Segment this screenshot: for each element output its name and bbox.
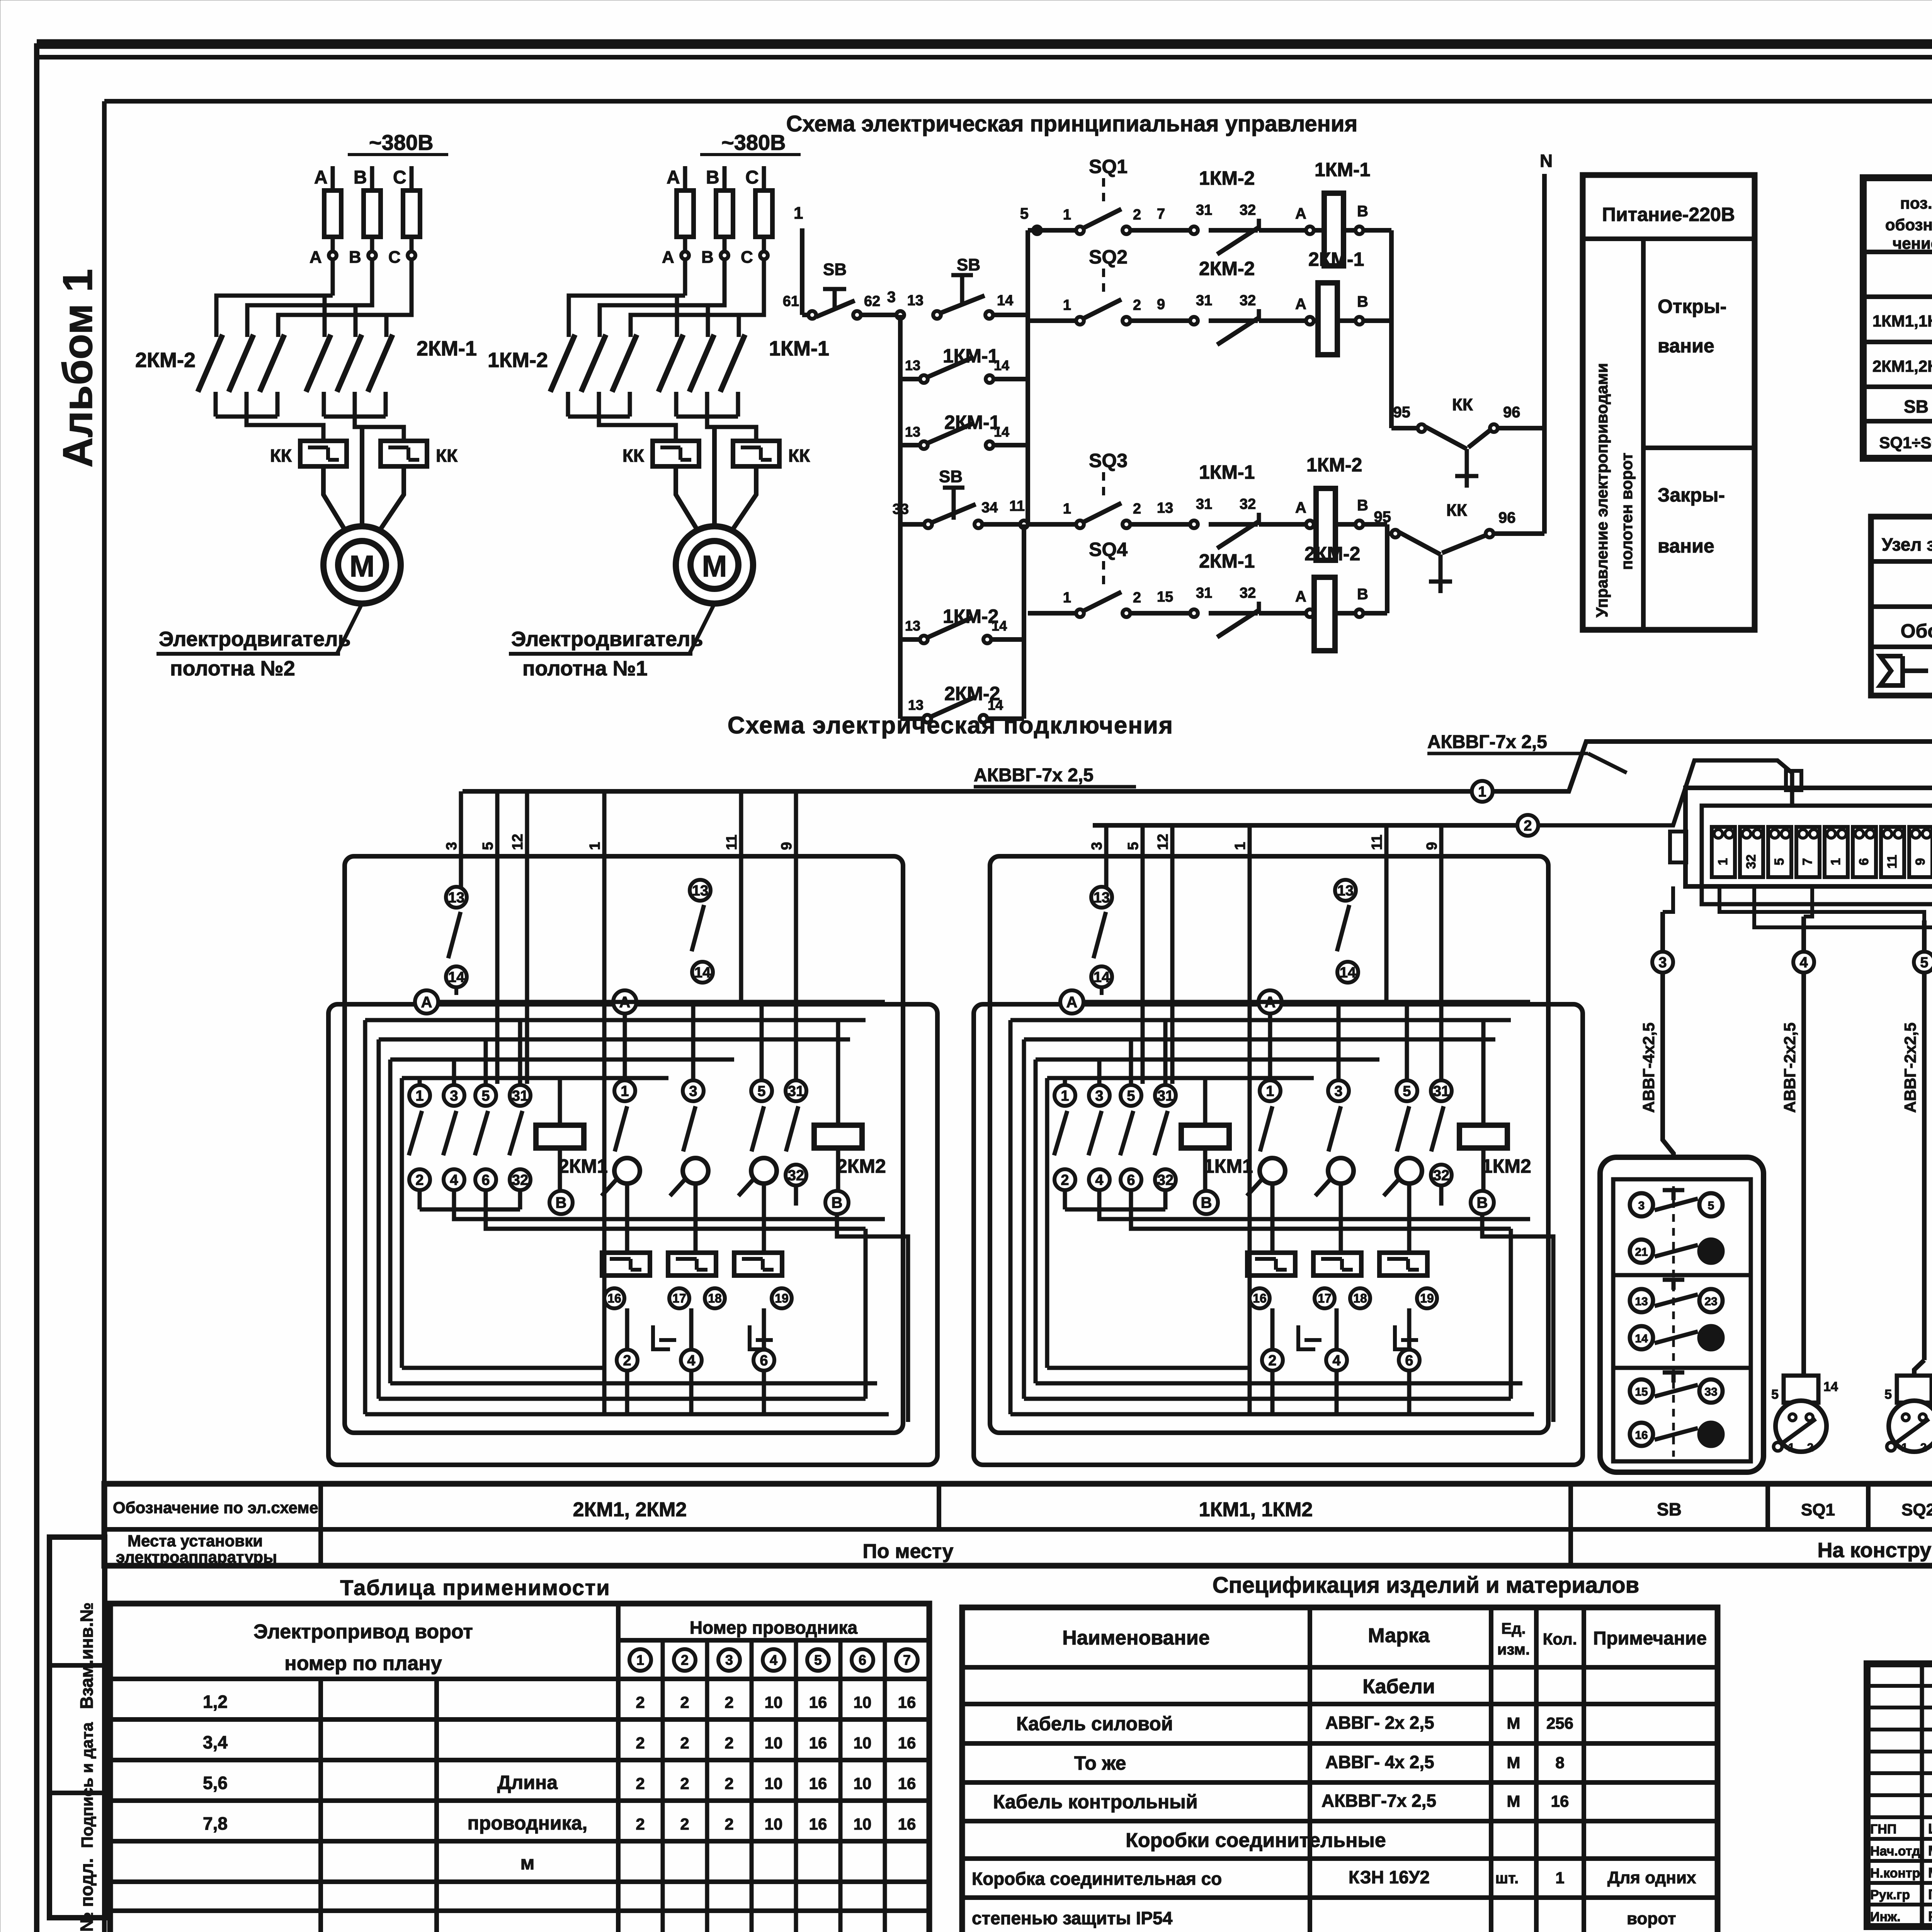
main title block frame bbox=[1867, 1664, 1932, 1927]
svg-text:32: 32 bbox=[1157, 1172, 1173, 1188]
coil output bus lower bbox=[1385, 524, 1389, 613]
svg-text:Таблица применимости: Таблица применимости bbox=[340, 1575, 610, 1600]
svg-text:13: 13 bbox=[908, 697, 923, 713]
svg-text:КК: КК bbox=[622, 446, 645, 466]
fuse С bbox=[755, 190, 772, 237]
svg-text:2: 2 bbox=[1133, 501, 1141, 517]
svg-text:11: 11 bbox=[724, 835, 740, 850]
svg-text:5: 5 bbox=[1772, 858, 1787, 866]
wire elbows to contactor poles bbox=[569, 296, 685, 320]
cable АВВГ-2х2,5 wire 4 bbox=[1801, 917, 1806, 1375]
svg-text:Альбом 1: Альбом 1 bbox=[54, 269, 101, 468]
terminal circles under KK bbox=[604, 1288, 624, 1308]
svg-text:3,4: 3,4 bbox=[203, 1732, 228, 1752]
svg-text:1КМ1: 1КМ1 bbox=[1204, 1155, 1253, 1177]
svg-text:А: А bbox=[667, 167, 680, 188]
jumper wires under strip bbox=[1719, 886, 1924, 920]
svg-text:С: С bbox=[741, 248, 753, 267]
svg-text:1КМ-1: 1КМ-1 bbox=[1315, 159, 1370, 180]
rung 1КМ-1 y=596 bbox=[1028, 228, 1080, 233]
svg-text:13: 13 bbox=[1157, 500, 1173, 516]
svg-text:13: 13 bbox=[1635, 1295, 1648, 1308]
svg-text:Марка: Марка bbox=[1368, 1624, 1430, 1647]
inner frame bbox=[102, 101, 107, 1932]
terminal 5 bbox=[1825, 827, 1848, 877]
terminal 4 bbox=[1796, 827, 1820, 877]
svg-text:поз.: поз. bbox=[1900, 194, 1932, 212]
svg-text:Схема электрическая подключен: Схема электрическая подключения bbox=[728, 712, 1173, 739]
cable АВВГ-4х2,5 wire 3 bbox=[1660, 912, 1665, 1128]
svg-text:10: 10 bbox=[765, 1774, 783, 1793]
svg-text:3: 3 bbox=[1658, 954, 1667, 971]
svg-text:1: 1 bbox=[1063, 501, 1071, 517]
thermal hooks bbox=[1298, 1325, 1315, 1349]
designation band bbox=[104, 1484, 1932, 1566]
svg-text:С: С bbox=[393, 167, 406, 188]
motor label bbox=[337, 604, 362, 654]
svg-text:3: 3 bbox=[1089, 842, 1105, 850]
svg-text:SQ1: SQ1 bbox=[1801, 1500, 1835, 1519]
svg-text:Электродвигатель: Электродвигатель bbox=[159, 628, 351, 651]
svg-text:2КМ1, 2КМ2: 2КМ1, 2КМ2 bbox=[573, 1498, 687, 1521]
svg-text:А: А bbox=[421, 994, 432, 1011]
svg-text:13: 13 bbox=[448, 889, 464, 906]
svg-text:1КМ-1: 1КМ-1 bbox=[1199, 461, 1255, 483]
svg-text:М: М bbox=[1507, 1792, 1520, 1810]
svg-text:Коробки соединительные: Коробки соединительные bbox=[1126, 1829, 1386, 1852]
svg-text:А: А bbox=[310, 248, 322, 267]
svg-text:степенью защиты IP54: степенью защиты IP54 bbox=[972, 1908, 1173, 1928]
svg-text:3: 3 bbox=[725, 1652, 733, 1668]
svg-text:11: 11 bbox=[1369, 835, 1385, 850]
svg-text:SQ4: SQ4 bbox=[1089, 539, 1128, 560]
svg-text:А: А bbox=[1295, 588, 1306, 605]
svg-text:Рывина: Рывина bbox=[1928, 1908, 1932, 1924]
svg-text:Управление электроприводами: Управление электроприводами bbox=[1593, 363, 1611, 617]
svg-text:10: 10 bbox=[854, 1693, 872, 1711]
svg-text:В: В bbox=[1357, 293, 1368, 310]
svg-text:4: 4 bbox=[450, 1172, 458, 1188]
coil 1КМ1 bbox=[1181, 1125, 1229, 1148]
svg-text:9: 9 bbox=[1424, 842, 1440, 850]
svg-text:АВВГ-4х2,5: АВВГ-4х2,5 bbox=[1639, 1022, 1658, 1113]
svg-text:17: 17 bbox=[672, 1291, 686, 1305]
svg-text:1: 1 bbox=[1478, 784, 1486, 800]
svg-text:34: 34 bbox=[981, 500, 998, 516]
node A right bbox=[1259, 990, 1282, 1014]
limit switch body 5/14 bbox=[1784, 1376, 1818, 1403]
svg-text:А: А bbox=[1066, 994, 1078, 1011]
svg-text:12: 12 bbox=[510, 834, 526, 850]
svg-text:2: 2 bbox=[1268, 1352, 1276, 1369]
svg-text:~380В: ~380В bbox=[721, 130, 786, 155]
svg-text:АКВВГ-7х 2,5: АКВВГ-7х 2,5 bbox=[974, 765, 1094, 786]
svg-text:95: 95 bbox=[1393, 404, 1411, 421]
svg-text:2: 2 bbox=[680, 1693, 689, 1711]
svg-text:Кол.: Кол. bbox=[1543, 1630, 1577, 1648]
svg-text:В: В bbox=[1477, 1194, 1488, 1211]
svg-text:В: В bbox=[1357, 497, 1368, 514]
svg-text:13: 13 bbox=[907, 293, 923, 309]
svg-text:13: 13 bbox=[905, 424, 920, 440]
svg-text:16: 16 bbox=[1635, 1429, 1648, 1442]
svg-text:2КМ-1: 2КМ-1 bbox=[417, 337, 477, 360]
svg-text:Кабель силовой: Кабель силовой bbox=[1016, 1713, 1173, 1735]
junction block 2КМ1,2КМ2 outline bbox=[345, 856, 903, 1433]
svg-text:Подпись и дата: Подпись и дата bbox=[78, 1722, 96, 1848]
svg-text:6: 6 bbox=[859, 1652, 866, 1668]
svg-text:23: 23 bbox=[1704, 1295, 1717, 1308]
svg-text:2: 2 bbox=[681, 1652, 689, 1668]
svg-text:В: В bbox=[832, 1194, 843, 1211]
svg-text:16: 16 bbox=[809, 1734, 827, 1752]
svg-text:М: М bbox=[702, 549, 727, 583]
svg-text:3: 3 bbox=[1638, 1199, 1645, 1212]
svg-text:Закры-: Закры- bbox=[1658, 484, 1725, 506]
svg-text:11: 11 bbox=[1885, 855, 1900, 869]
svg-text:По месту: По месту bbox=[863, 1540, 954, 1563]
svg-text:Ед.: Ед. bbox=[1501, 1620, 1526, 1637]
svg-text:изм.: изм. bbox=[1497, 1641, 1530, 1658]
svg-text:~380В: ~380В bbox=[369, 130, 434, 155]
SB contact row 21-1 bbox=[1630, 1240, 1653, 1263]
svg-text:Кабель контрольный: Кабель контрольный bbox=[993, 1791, 1198, 1813]
svg-text:Откры-: Откры- bbox=[1658, 296, 1726, 317]
svg-text:61: 61 bbox=[783, 293, 799, 310]
signature table bbox=[1867, 1684, 1932, 1688]
svg-text:11: 11 bbox=[1009, 498, 1025, 514]
svg-text:16: 16 bbox=[1253, 1291, 1267, 1305]
SB contact row 15-33 bbox=[1630, 1379, 1653, 1403]
svg-text:ворот: ворот bbox=[1627, 1909, 1676, 1928]
SB contact row 16-34 bbox=[1630, 1423, 1653, 1446]
svg-text:14: 14 bbox=[1094, 969, 1110, 985]
coil 2КМ1 bbox=[536, 1125, 584, 1148]
svg-text:М: М bbox=[1507, 1753, 1520, 1772]
svg-text:С: С bbox=[745, 167, 759, 188]
svg-text:33: 33 bbox=[893, 501, 909, 517]
limit switch body 5/6 bbox=[1897, 1376, 1932, 1403]
svg-text:В: В bbox=[349, 248, 361, 267]
svg-text:2КМ1: 2КМ1 bbox=[558, 1155, 608, 1177]
svg-text:2: 2 bbox=[1807, 1441, 1814, 1454]
svg-text:31: 31 bbox=[788, 1083, 804, 1099]
svg-text:18: 18 bbox=[708, 1291, 722, 1305]
svg-text:КК: КК bbox=[788, 446, 810, 466]
svg-text:32: 32 bbox=[1240, 585, 1256, 601]
svg-text:9: 9 bbox=[1157, 296, 1165, 313]
svg-text:электроаппаратуры: электроаппаратуры bbox=[116, 1548, 277, 1566]
svg-text:10: 10 bbox=[854, 1734, 872, 1752]
svg-text:31: 31 bbox=[1157, 1088, 1173, 1104]
svg-text:7: 7 bbox=[1157, 206, 1165, 222]
svg-text:3: 3 bbox=[689, 1083, 697, 1099]
bottom routing bbox=[365, 1412, 889, 1417]
svg-text:4: 4 bbox=[1799, 954, 1808, 971]
svg-text:95: 95 bbox=[1374, 509, 1391, 526]
svg-text:А: А bbox=[1295, 296, 1306, 313]
svg-text:5: 5 bbox=[481, 1088, 490, 1104]
svg-text:SQ2: SQ2 bbox=[1901, 1500, 1932, 1519]
power legend box Питание-220В bbox=[1583, 175, 1755, 630]
border frame outer bbox=[37, 39, 1932, 49]
svg-text:96: 96 bbox=[1498, 509, 1516, 526]
svg-text:6: 6 bbox=[1127, 1172, 1135, 1188]
push button station SB box bbox=[1600, 1157, 1764, 1472]
svg-text:13: 13 bbox=[905, 357, 920, 373]
svg-text:Малахов: Малахов bbox=[1928, 1865, 1932, 1881]
svg-text:13: 13 bbox=[905, 618, 920, 634]
svg-text:5: 5 bbox=[1125, 842, 1141, 850]
terminal strip XT KZN 16U2 bbox=[1685, 788, 1932, 886]
svg-text:А: А bbox=[662, 248, 674, 267]
svg-text:С: С bbox=[388, 248, 401, 267]
svg-text:Инв.№ подл.: Инв.№ подл. bbox=[77, 1858, 97, 1932]
svg-text:Узел заземления: Узел заземления bbox=[1882, 534, 1932, 554]
fuse А bbox=[324, 190, 341, 237]
svg-text:1: 1 bbox=[587, 842, 603, 850]
svg-text:2: 2 bbox=[636, 1815, 645, 1833]
svg-text:5,6: 5,6 bbox=[203, 1773, 228, 1793]
svg-text:2: 2 bbox=[680, 1774, 689, 1793]
svg-text:15: 15 bbox=[1635, 1386, 1648, 1398]
svg-text:3: 3 bbox=[450, 1088, 458, 1104]
internal routing wires bbox=[438, 1000, 885, 1004]
svg-text:Примечание: Примечание bbox=[1593, 1628, 1707, 1649]
svg-text:1: 1 bbox=[1828, 858, 1843, 866]
svg-text:На конструкции ворот: На конструкции ворот bbox=[1818, 1539, 1932, 1562]
wires to motor bbox=[323, 466, 345, 530]
svg-text:Н.контр: Н.контр bbox=[1870, 1866, 1920, 1881]
specification table bbox=[962, 1607, 1718, 1932]
terminal 3 bbox=[1768, 827, 1791, 877]
svg-text:2: 2 bbox=[415, 1172, 423, 1188]
svg-text:Взам.инв.№: Взам.инв.№ bbox=[77, 1602, 97, 1709]
svg-text:256: 256 bbox=[1546, 1714, 1573, 1732]
node A left bbox=[415, 990, 438, 1014]
svg-text:2КМ-2: 2КМ-2 bbox=[1199, 258, 1255, 279]
svg-text:10: 10 bbox=[854, 1774, 872, 1793]
svg-text:1КМ-2: 1КМ-2 bbox=[488, 349, 548, 372]
svg-text:4: 4 bbox=[1095, 1172, 1103, 1188]
svg-text:2КМ-2: 2КМ-2 bbox=[1304, 543, 1360, 565]
svg-text:14: 14 bbox=[994, 357, 1009, 373]
svg-text:16: 16 bbox=[898, 1734, 916, 1752]
svg-text:32: 32 bbox=[788, 1167, 804, 1184]
thermal contact KK upper 95-96 bbox=[1391, 426, 1418, 430]
svg-text:1: 1 bbox=[1788, 1441, 1795, 1454]
svg-text:А: А bbox=[1295, 205, 1306, 222]
SB contact row 14-24 bbox=[1630, 1326, 1653, 1349]
svg-text:1КМ1,1КМ2: 1КМ1,1КМ2 bbox=[1872, 312, 1932, 330]
svg-text:АВВГ- 2х 2,5: АВВГ- 2х 2,5 bbox=[1325, 1713, 1434, 1733]
svg-text:2: 2 bbox=[623, 1352, 631, 1369]
svg-text:14: 14 bbox=[994, 424, 1009, 440]
svg-text:2: 2 bbox=[636, 1693, 645, 1711]
grounding nodes table bbox=[1871, 517, 1932, 696]
svg-text:5: 5 bbox=[1771, 1387, 1779, 1402]
left rail node3 bbox=[898, 315, 903, 719]
svg-text:1КМ2: 1КМ2 bbox=[1482, 1155, 1531, 1177]
svg-text:32: 32 bbox=[1240, 202, 1256, 218]
wires to motor bbox=[676, 466, 697, 530]
svg-text:4: 4 bbox=[770, 1652, 777, 1668]
svg-text:Электропривод ворот: Электропривод ворот bbox=[253, 1621, 473, 1643]
svg-text:1: 1 bbox=[636, 1652, 644, 1668]
svg-text:3: 3 bbox=[887, 289, 896, 306]
svg-text:Рук.гр: Рук.гр bbox=[1870, 1888, 1910, 1902]
svg-text:Электродвигатель: Электродвигатель bbox=[511, 628, 703, 651]
svg-text:КК: КК bbox=[1452, 395, 1473, 414]
svg-text:SB: SB bbox=[1904, 396, 1929, 417]
limit switch SQ3 bbox=[1083, 503, 1121, 522]
svg-text:В: В bbox=[1357, 203, 1368, 220]
svg-text:21: 21 bbox=[1635, 1246, 1648, 1259]
contact 13-14 pair B bbox=[690, 880, 711, 901]
svg-text:КЗН 16У2: КЗН 16У2 bbox=[1349, 1867, 1430, 1887]
coil 2КМ2 bbox=[814, 1125, 862, 1148]
mid rail bbox=[1026, 230, 1030, 524]
wire marker 1 bbox=[1472, 781, 1493, 802]
svg-text:2: 2 bbox=[724, 1693, 733, 1711]
svg-text:14: 14 bbox=[448, 969, 464, 985]
rung 2КМ-1 y=830 bbox=[1028, 318, 1080, 323]
svg-text:Для одних: Для одних bbox=[1607, 1868, 1696, 1887]
svg-text:Обозначение по эл.схеме: Обозначение по эл.схеме bbox=[113, 1498, 318, 1517]
svg-text:1,2: 1,2 bbox=[203, 1692, 228, 1712]
svg-text:чение: чение bbox=[1893, 234, 1932, 252]
applicability table bbox=[110, 1604, 929, 1932]
svg-text:9: 9 bbox=[1913, 858, 1928, 866]
thermal elements KK row bbox=[1247, 1253, 1295, 1276]
svg-text:14: 14 bbox=[988, 697, 1003, 713]
svg-text:полотна №1: полотна №1 bbox=[522, 657, 648, 680]
svg-text:Номер проводника: Номер проводника bbox=[690, 1617, 858, 1638]
svg-text:2: 2 bbox=[636, 1734, 645, 1752]
svg-text:В: В bbox=[706, 167, 719, 188]
svg-text:полотен ворот: полотен ворот bbox=[1617, 453, 1636, 570]
junction block 1КМ1,1КМ2 outline bbox=[990, 856, 1548, 1433]
contact group 1 circles bbox=[1063, 1078, 1067, 1085]
svg-text:16: 16 bbox=[809, 1815, 827, 1833]
svg-text:1КМ-1: 1КМ-1 bbox=[769, 337, 829, 360]
cable АВВГ-2х2,5 wire 5 bbox=[1922, 920, 1927, 1360]
bottom terminals 2 4 6 bbox=[625, 1308, 629, 1349]
coil output bus upper bbox=[1389, 230, 1394, 428]
equipment list table bbox=[1863, 178, 1932, 458]
svg-text:14: 14 bbox=[992, 618, 1007, 634]
svg-text:18: 18 bbox=[1353, 1291, 1367, 1305]
svg-text:13: 13 bbox=[692, 883, 708, 899]
svg-text:N: N bbox=[1540, 151, 1553, 171]
wires to thermal relays bbox=[216, 415, 277, 419]
svg-text:16: 16 bbox=[607, 1291, 621, 1305]
svg-text:1: 1 bbox=[1555, 1869, 1564, 1887]
svg-text:16: 16 bbox=[898, 1815, 916, 1833]
svg-text:Инж.: Инж. bbox=[1870, 1910, 1901, 1924]
svg-text:2: 2 bbox=[1061, 1172, 1069, 1188]
contact group 2 bbox=[623, 1014, 627, 1080]
svg-text:Обозначение: Обозначение bbox=[1901, 620, 1932, 642]
svg-text:5: 5 bbox=[1403, 1083, 1411, 1099]
svg-text:1: 1 bbox=[1716, 858, 1730, 866]
svg-text:5: 5 bbox=[814, 1652, 822, 1668]
svg-text:проводника,: проводника, bbox=[468, 1812, 588, 1834]
svg-text:2КМ1,2КМ2: 2КМ1,2КМ2 bbox=[1872, 357, 1932, 375]
svg-text:Нач.отд: Нач.отд bbox=[1870, 1844, 1920, 1859]
svg-text:1: 1 bbox=[1232, 842, 1248, 850]
SB contact row 13-23 bbox=[1630, 1289, 1653, 1312]
svg-text:5: 5 bbox=[1884, 1387, 1892, 1402]
svg-text:10: 10 bbox=[765, 1734, 783, 1752]
svg-text:SB: SB bbox=[957, 255, 980, 274]
svg-text:SB: SB bbox=[939, 467, 963, 486]
svg-text:16: 16 bbox=[898, 1693, 916, 1711]
contact 13-14 pair A bbox=[446, 887, 467, 908]
svg-text:13: 13 bbox=[1337, 883, 1354, 899]
lower mid rail bbox=[1022, 524, 1026, 719]
svg-text:1КМ1, 1КМ2: 1КМ1, 1КМ2 bbox=[1199, 1498, 1313, 1521]
svg-text:В: В bbox=[701, 248, 714, 267]
svg-text:номер по плану: номер по плану bbox=[284, 1652, 442, 1675]
svg-text:Кабели: Кабели bbox=[1362, 1675, 1435, 1698]
svg-text:2КМ-1: 2КМ-1 bbox=[1308, 248, 1364, 270]
svg-text:1: 1 bbox=[1901, 1441, 1908, 1454]
limit switch SQ4 bbox=[1083, 592, 1121, 611]
fuse С bbox=[403, 190, 420, 237]
fuse В bbox=[716, 190, 733, 237]
svg-text:14: 14 bbox=[997, 293, 1013, 309]
svg-text:5: 5 bbox=[1020, 205, 1029, 222]
svg-text:19: 19 bbox=[1420, 1291, 1434, 1305]
svg-text:17: 17 bbox=[1318, 1291, 1332, 1305]
svg-text:АКВВГ-7х 2,5: АКВВГ-7х 2,5 bbox=[1427, 732, 1547, 752]
svg-text:8: 8 bbox=[1555, 1753, 1564, 1772]
svg-text:1: 1 bbox=[1063, 207, 1071, 223]
svg-text:31: 31 bbox=[1196, 293, 1212, 309]
svg-text:обозна-: обозна- bbox=[1885, 216, 1932, 234]
svg-text:КК: КК bbox=[436, 446, 458, 466]
svg-text:2КМ2: 2КМ2 bbox=[837, 1155, 886, 1177]
svg-text:1: 1 bbox=[1061, 1088, 1069, 1104]
svg-text:ГНП: ГНП bbox=[1870, 1822, 1896, 1837]
svg-text:Шерстенко: Шерстенко bbox=[1928, 1821, 1932, 1837]
thermal elements KK row bbox=[602, 1253, 650, 1276]
svg-text:АВВГ-2х2,5: АВВГ-2х2,5 bbox=[1781, 1022, 1799, 1113]
svg-text:31: 31 bbox=[1196, 496, 1212, 512]
svg-text:3: 3 bbox=[1095, 1088, 1103, 1104]
rung 2КМ-2 y=1587 bbox=[1028, 611, 1080, 616]
svg-text:32: 32 bbox=[1433, 1167, 1449, 1184]
svg-text:А: А bbox=[1295, 499, 1306, 516]
svg-text:В: В bbox=[1201, 1194, 1212, 1211]
terminal 6 bbox=[1853, 827, 1876, 877]
svg-text:3: 3 bbox=[444, 842, 460, 850]
svg-text:SQ3: SQ3 bbox=[1089, 450, 1128, 471]
fuse В bbox=[364, 190, 381, 237]
wires to thermal relays bbox=[568, 415, 630, 419]
svg-text:13: 13 bbox=[1094, 889, 1110, 906]
fuse А bbox=[677, 190, 694, 237]
svg-text:2: 2 bbox=[680, 1815, 689, 1833]
svg-text:2: 2 bbox=[724, 1774, 733, 1793]
motor M №1 bbox=[676, 526, 753, 604]
svg-text:м: м bbox=[520, 1852, 535, 1874]
svg-text:SQ2: SQ2 bbox=[1089, 246, 1128, 268]
svg-text:полотна №2: полотна №2 bbox=[170, 657, 295, 680]
svg-text:АКВВГ-7х 2,5: АКВВГ-7х 2,5 bbox=[1321, 1791, 1436, 1811]
svg-text:2: 2 bbox=[1133, 207, 1141, 223]
